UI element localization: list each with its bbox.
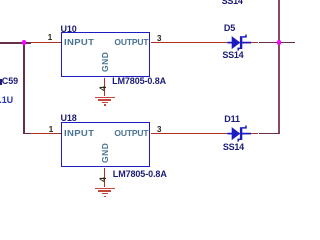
pin 3 of U18 (OUTPUT) [151, 133, 228, 135]
U18 designator [61, 114, 77, 123]
pin number 4 (U10, rotated) [99, 86, 108, 91]
U10 designator [61, 25, 77, 34]
regulator U18 (LM7805) box [61, 122, 150, 167]
wire: vertical net from node A down [23, 42, 25, 135]
diode D5 (SS14 schottky) [220, 28, 260, 56]
D5 value SS14 [222, 51, 243, 60]
wire: right vertical net [278, 0, 279, 134]
U18 port OUTPUT [114, 129, 148, 138]
pin number 3 (U18) [157, 126, 161, 134]
pin 4 GND wire of U18 [104, 168, 106, 187]
D5 designator [224, 24, 235, 33]
SS14 label of cropped diode at top [222, 0, 243, 6]
pin number 1 (U18) [49, 126, 53, 134]
wire: pin 1 of U18 (INPUT) [31, 133, 62, 135]
capacitor value 0.1U (cut at left edge) [0, 96, 13, 105]
pin number 3 (U10) [157, 35, 161, 43]
diode D11 (SS14 schottky) [220, 119, 260, 147]
capacitor C59 designator (cut at left edge) [0, 79, 2, 85]
U18 value LM7805-0.8A [113, 170, 167, 179]
wire: input net horizontal row2 [23, 133, 31, 135]
U10 value LM7805-0.8A [112, 77, 166, 86]
node B junction dot [277, 40, 282, 45]
D11 value SS14 [223, 143, 244, 152]
ground symbol below U18 [95, 188, 115, 190]
U18 port GND (rotated) [101, 143, 110, 163]
pin number 1 (U10) [48, 34, 52, 42]
pin number 4 (U18, rotated) [99, 177, 108, 182]
regulator U10 (LM7805) box [61, 32, 150, 77]
wire: D11 output net to corner [251, 133, 259, 135]
pin 1 of U10 (INPUT) [31, 42, 62, 44]
ground symbol below U10 [95, 97, 115, 99]
pin 4 GND wire of U10 [104, 78, 106, 96]
pin 3 of U10 (OUTPUT) [151, 42, 228, 44]
U10 port OUTPUT [114, 38, 148, 47]
D11 designator [224, 115, 240, 124]
U10 port INPUT [64, 38, 94, 47]
wire: input net horizontal row1 [0, 42, 31, 44]
U18 port INPUT [64, 129, 94, 138]
wire: D5 output net to node B [251, 42, 259, 44]
node A junction dot [22, 40, 27, 45]
U10 port GND (rotated) [101, 51, 110, 71]
